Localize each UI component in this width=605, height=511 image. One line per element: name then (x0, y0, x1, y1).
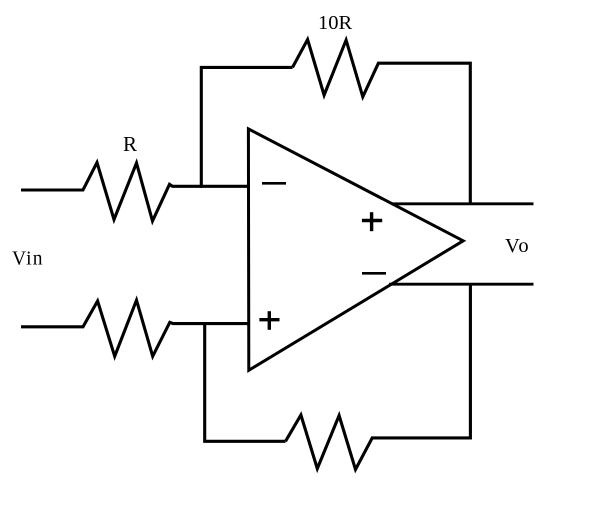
svg-text:Vo: Vo (505, 235, 530, 257)
non-inverting input marker (plus) (259, 311, 279, 330)
inverting input marker (minus) (262, 182, 286, 185)
wire: top right to feedback down to upper output line (378, 63, 471, 204)
svg-text:Vin: Vin (12, 249, 44, 270)
resistor (bottom zigzag, unlabeled) (286, 415, 373, 470)
wire: bottom tap down from non-inverting node (205, 325, 286, 441)
svg-text:R: R (123, 132, 137, 156)
wire: upper input with resistor R (zigzag) to inverting input (21, 163, 250, 222)
svg-text:10R: 10R (318, 12, 353, 34)
op-amp U1 (248, 129, 463, 370)
lower output line (389, 283, 534, 286)
wire: bottom right up to lower output line (372, 284, 471, 438)
wire: feedback tap up from inverting input node (201, 67, 292, 187)
upper output line (392, 202, 534, 205)
resistor 10R (zigzag) (293, 40, 379, 97)
output minus marker (362, 272, 386, 275)
output plus marker (362, 212, 382, 231)
wire: lower input with resistor (zigzag) to non-inverting input (21, 300, 250, 356)
